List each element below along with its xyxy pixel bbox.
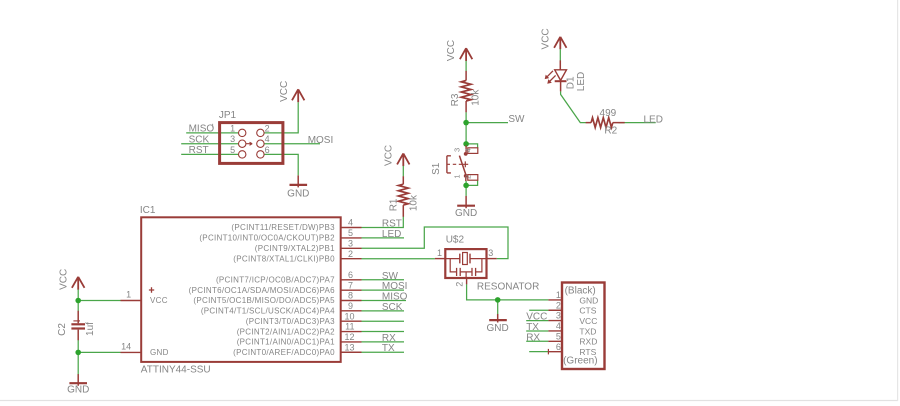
IC1 ATTINY44: [121, 217, 362, 362]
supply VCC (at R3): [460, 48, 472, 61]
svg-text:2: 2: [556, 300, 561, 310]
IC1 right pin numbers: [344, 218, 354, 353]
svg-text:1: 1: [126, 290, 131, 300]
svg-text:GND: GND: [287, 189, 309, 200]
svg-text:11: 11: [345, 322, 354, 332]
svg-text:GND: GND: [579, 295, 598, 305]
LED D1: [545, 60, 567, 91]
svg-text:RESONATOR: RESONATOR: [477, 281, 539, 292]
svg-text:VCC: VCC: [540, 28, 551, 49]
resonator U$2: [435, 249, 497, 284]
resistor R1: [398, 176, 408, 217]
svg-text:VCC: VCC: [279, 81, 290, 102]
svg-text:5: 5: [348, 228, 353, 238]
wire FTDI VCC: [526, 320, 548, 322]
svg-text:ATTINY44-SSU: ATTINY44-SSU: [141, 364, 211, 375]
wire IC pin10: [362, 320, 405, 322]
wire S1 top to pin4 pad: [466, 144, 478, 148]
wire JP1 pin2 to VCC: [264, 102, 298, 133]
svg-text:RXD: RXD: [579, 337, 597, 347]
frame right edge: [897, 0, 899, 401]
svg-text:SCK: SCK: [189, 135, 210, 146]
svg-text:3: 3: [230, 134, 235, 144]
frame bottom edge: [0, 400, 898, 402]
wire LED net at IC pin5: [362, 237, 405, 239]
svg-text:TX: TX: [382, 343, 395, 354]
svg-text:JP1: JP1: [219, 110, 237, 121]
wire JP1 pin6 to GND: [264, 154, 298, 175]
capacitor C2: [71, 311, 85, 340]
svg-text:LED: LED: [576, 72, 587, 91]
svg-text:1: 1: [452, 175, 461, 179]
svg-text:VCC: VCC: [150, 296, 168, 305]
svg-text:MOSI: MOSI: [382, 281, 408, 292]
wire R1 top to VCC: [402, 166, 404, 177]
svg-text:TXD: TXD: [579, 326, 596, 336]
wire VCC to C2 and IC pin1: [77, 290, 79, 311]
wire MISO to JP1 pin1: [186, 132, 238, 134]
FTDI header J1: [548, 283, 604, 370]
S1 pin numbers: [452, 148, 472, 179]
svg-text:(PCINT10/INT0/OC0A/CKOUT)PB2: (PCINT10/INT0/OC0A/CKOUT)PB2: [199, 234, 335, 243]
svg-text:R1: R1: [388, 198, 399, 211]
IC1 left pin names: [150, 296, 169, 357]
svg-text:1uf: 1uf: [85, 322, 96, 336]
svg-text:(PCINT9/XTAL2)PB1: (PCINT9/XTAL2)PB1: [255, 244, 335, 253]
svg-text:2: 2: [464, 175, 473, 179]
svg-text:(PCINT4/T1/SCL/USCK/ADC4)PA4: (PCINT4/T1/SCL/USCK/ADC4)PA4: [201, 307, 335, 316]
supply VCC (at JP1): [292, 89, 304, 102]
U$2 pin numbers: [437, 248, 493, 287]
supply VCC (at D1): [554, 37, 566, 50]
svg-text:3: 3: [452, 148, 461, 152]
wire SW junction down to S1: [465, 123, 467, 145]
svg-text:10k: 10k: [408, 194, 419, 211]
ground (S1): [457, 196, 475, 208]
svg-text:1: 1: [437, 248, 442, 258]
svg-text:6: 6: [265, 145, 270, 155]
svg-text:VCC: VCC: [446, 40, 457, 61]
svg-text:10: 10: [344, 311, 354, 321]
wire D1 anode to VCC: [559, 49, 561, 61]
wire FTDI RXD: [526, 340, 548, 342]
wire IC pin3 XTAL2 to resonator pin3: [362, 227, 509, 259]
svg-text:CTS: CTS: [579, 306, 596, 316]
ground (C2): [69, 374, 87, 386]
svg-text:(PCINT8/XTAL1/CLKI)PB0: (PCINT8/XTAL1/CLKI)PB0: [233, 254, 335, 263]
svg-text:3: 3: [556, 311, 561, 321]
header JP1: [220, 123, 283, 164]
svg-text:9: 9: [348, 301, 353, 311]
wire MOSI net at IC pin7: [362, 289, 405, 291]
svg-text:1: 1: [230, 123, 235, 133]
svg-text:13: 13: [344, 342, 354, 352]
wire FTDI RTS: [529, 351, 548, 353]
svg-text:MISO: MISO: [189, 124, 215, 135]
junction SW at R3: [463, 120, 469, 126]
wire TX net at IC pin13: [362, 351, 405, 353]
svg-text:RTS: RTS: [579, 347, 596, 357]
wire MISO net at IC pin8: [362, 300, 407, 302]
svg-text:VCC: VCC: [579, 316, 597, 326]
svg-text:4: 4: [265, 134, 270, 144]
FTDI pin names: [579, 295, 598, 357]
wire R3 to SW junction: [465, 112, 467, 123]
svg-text:GND: GND: [486, 323, 508, 334]
svg-text:(Green): (Green): [563, 356, 597, 367]
junction S1 bottom: [463, 183, 469, 189]
wire FTDI CTS: [529, 309, 548, 311]
supply VCC (at R1): [397, 153, 409, 166]
svg-text:SCK: SCK: [382, 302, 403, 313]
svg-text:VCC: VCC: [59, 269, 70, 290]
svg-text:(PCINT3/T0/ADC3)PA3: (PCINT3/T0/ADC3)PA3: [246, 317, 335, 326]
svg-text:GND: GND: [150, 348, 169, 357]
wire SCK net at IC pin9: [362, 310, 405, 312]
junction S1 top: [463, 141, 469, 147]
svg-text:3: 3: [488, 248, 493, 258]
junction C2 GND: [75, 350, 81, 356]
svg-text:(PCINT7/ICP/OC0B/ADC7)PA7: (PCINT7/ICP/OC0B/ADC7)PA7: [216, 276, 335, 285]
svg-text:5: 5: [556, 331, 561, 341]
wire JP1 pin4 MOSI: [264, 143, 320, 145]
IC1 right pin names: [189, 223, 335, 357]
switch S1: [447, 145, 478, 181]
svg-text:4: 4: [556, 321, 561, 331]
svg-text:C2: C2: [57, 323, 68, 336]
svg-text:(PCINT2/AIN1/ADC2)PA2: (PCINT2/AIN1/ADC2)PA2: [237, 327, 335, 336]
svg-text:7: 7: [348, 280, 353, 290]
svg-text:(PCINT5/OC1B/MISO/DO/ADC5)PA5: (PCINT5/OC1B/MISO/DO/ADC5)PA5: [193, 296, 335, 305]
svg-text:LED: LED: [382, 229, 401, 240]
wire C2 to GND and IC pin14: [77, 340, 79, 374]
svg-text:U$2: U$2: [446, 234, 465, 245]
svg-text:VCC: VCC: [383, 145, 394, 166]
svg-text:3: 3: [348, 238, 353, 248]
junction C2 VCC: [75, 298, 81, 304]
svg-text:SW: SW: [508, 114, 525, 125]
svg-text:(PCINT11/RESET/DW)PB3: (PCINT11/RESET/DW)PB3: [231, 223, 335, 232]
IC1 left pin numbers: [121, 290, 131, 352]
svg-text:6: 6: [348, 270, 353, 280]
S1 pin3 dot: [464, 152, 468, 156]
svg-text:4: 4: [464, 148, 473, 152]
svg-text:(PCINT6/OC1A/SDA/MOSI/ADC6)PA6: (PCINT6/OC1A/SDA/MOSI/ADC6)PA6: [189, 286, 335, 295]
label tick: [212, 124, 214, 128]
svg-text:6: 6: [556, 342, 561, 352]
resistor R2: [586, 118, 625, 128]
svg-text:12: 12: [344, 332, 354, 342]
FTDI pin numbers: [556, 290, 561, 352]
svg-text:RST: RST: [189, 145, 209, 156]
wire RST net at IC pin4 to R1: [362, 217, 404, 228]
svg-text:4: 4: [348, 218, 353, 228]
svg-text:5: 5: [230, 145, 235, 155]
ground (JP1): [290, 175, 308, 187]
svg-text:RX: RX: [526, 332, 540, 343]
svg-text:10k: 10k: [471, 89, 482, 106]
S1 pin1 dot: [464, 174, 468, 178]
svg-text:LED: LED: [644, 114, 663, 125]
svg-text:(PCINT0/AREF/ADC0)PA0: (PCINT0/AREF/ADC0)PA0: [233, 348, 335, 357]
wire SW net at IC pin6: [362, 279, 405, 281]
svg-text:2: 2: [348, 249, 353, 259]
svg-text:MOSI: MOSI: [308, 135, 334, 146]
wire SW label: [466, 122, 508, 124]
wire IC pin2 XTAL1 to resonator pin1: [362, 258, 435, 260]
svg-text:GND: GND: [67, 385, 89, 396]
wire D1 cathode to R2: [561, 91, 586, 122]
svg-text:8: 8: [348, 291, 353, 301]
wire resonator pin2 to GND and FTDI GND: [467, 284, 549, 300]
wire SCK to JP1 pin3: [181, 143, 238, 145]
wire S1 bottom to pin2 pad: [466, 180, 478, 196]
svg-text:1: 1: [556, 290, 561, 300]
svg-text:IC1: IC1: [140, 205, 156, 216]
svg-text:RST: RST: [382, 219, 402, 230]
junction resonator GND: [495, 297, 501, 303]
wire RX net at IC pin12: [362, 341, 405, 343]
svg-text:2: 2: [455, 282, 465, 287]
svg-text:(PCINT1/AIN0/ADC1)PA1: (PCINT1/AIN0/ADC1)PA1: [237, 338, 335, 347]
svg-text:S1: S1: [431, 162, 442, 175]
supply VCC (at C2): [72, 277, 85, 290]
svg-text:14: 14: [121, 342, 131, 352]
svg-text:R2: R2: [604, 126, 617, 137]
wire RST to JP1 pin5: [181, 153, 238, 155]
ground (resonator): [489, 314, 507, 323]
svg-text:2: 2: [265, 123, 270, 133]
wire IC pin11: [362, 331, 405, 333]
wire R3 top to VCC: [465, 61, 467, 71]
svg-text:GND: GND: [455, 208, 477, 219]
wire R2 to LED label: [619, 122, 656, 124]
wire FTDI TXD: [526, 330, 548, 332]
svg-text:499: 499: [600, 108, 617, 119]
svg-text:VCC: VCC: [526, 312, 547, 323]
JP1 pin numbers: [230, 123, 269, 155]
resistor R3: [461, 71, 471, 112]
svg-text:R3: R3: [450, 93, 461, 106]
